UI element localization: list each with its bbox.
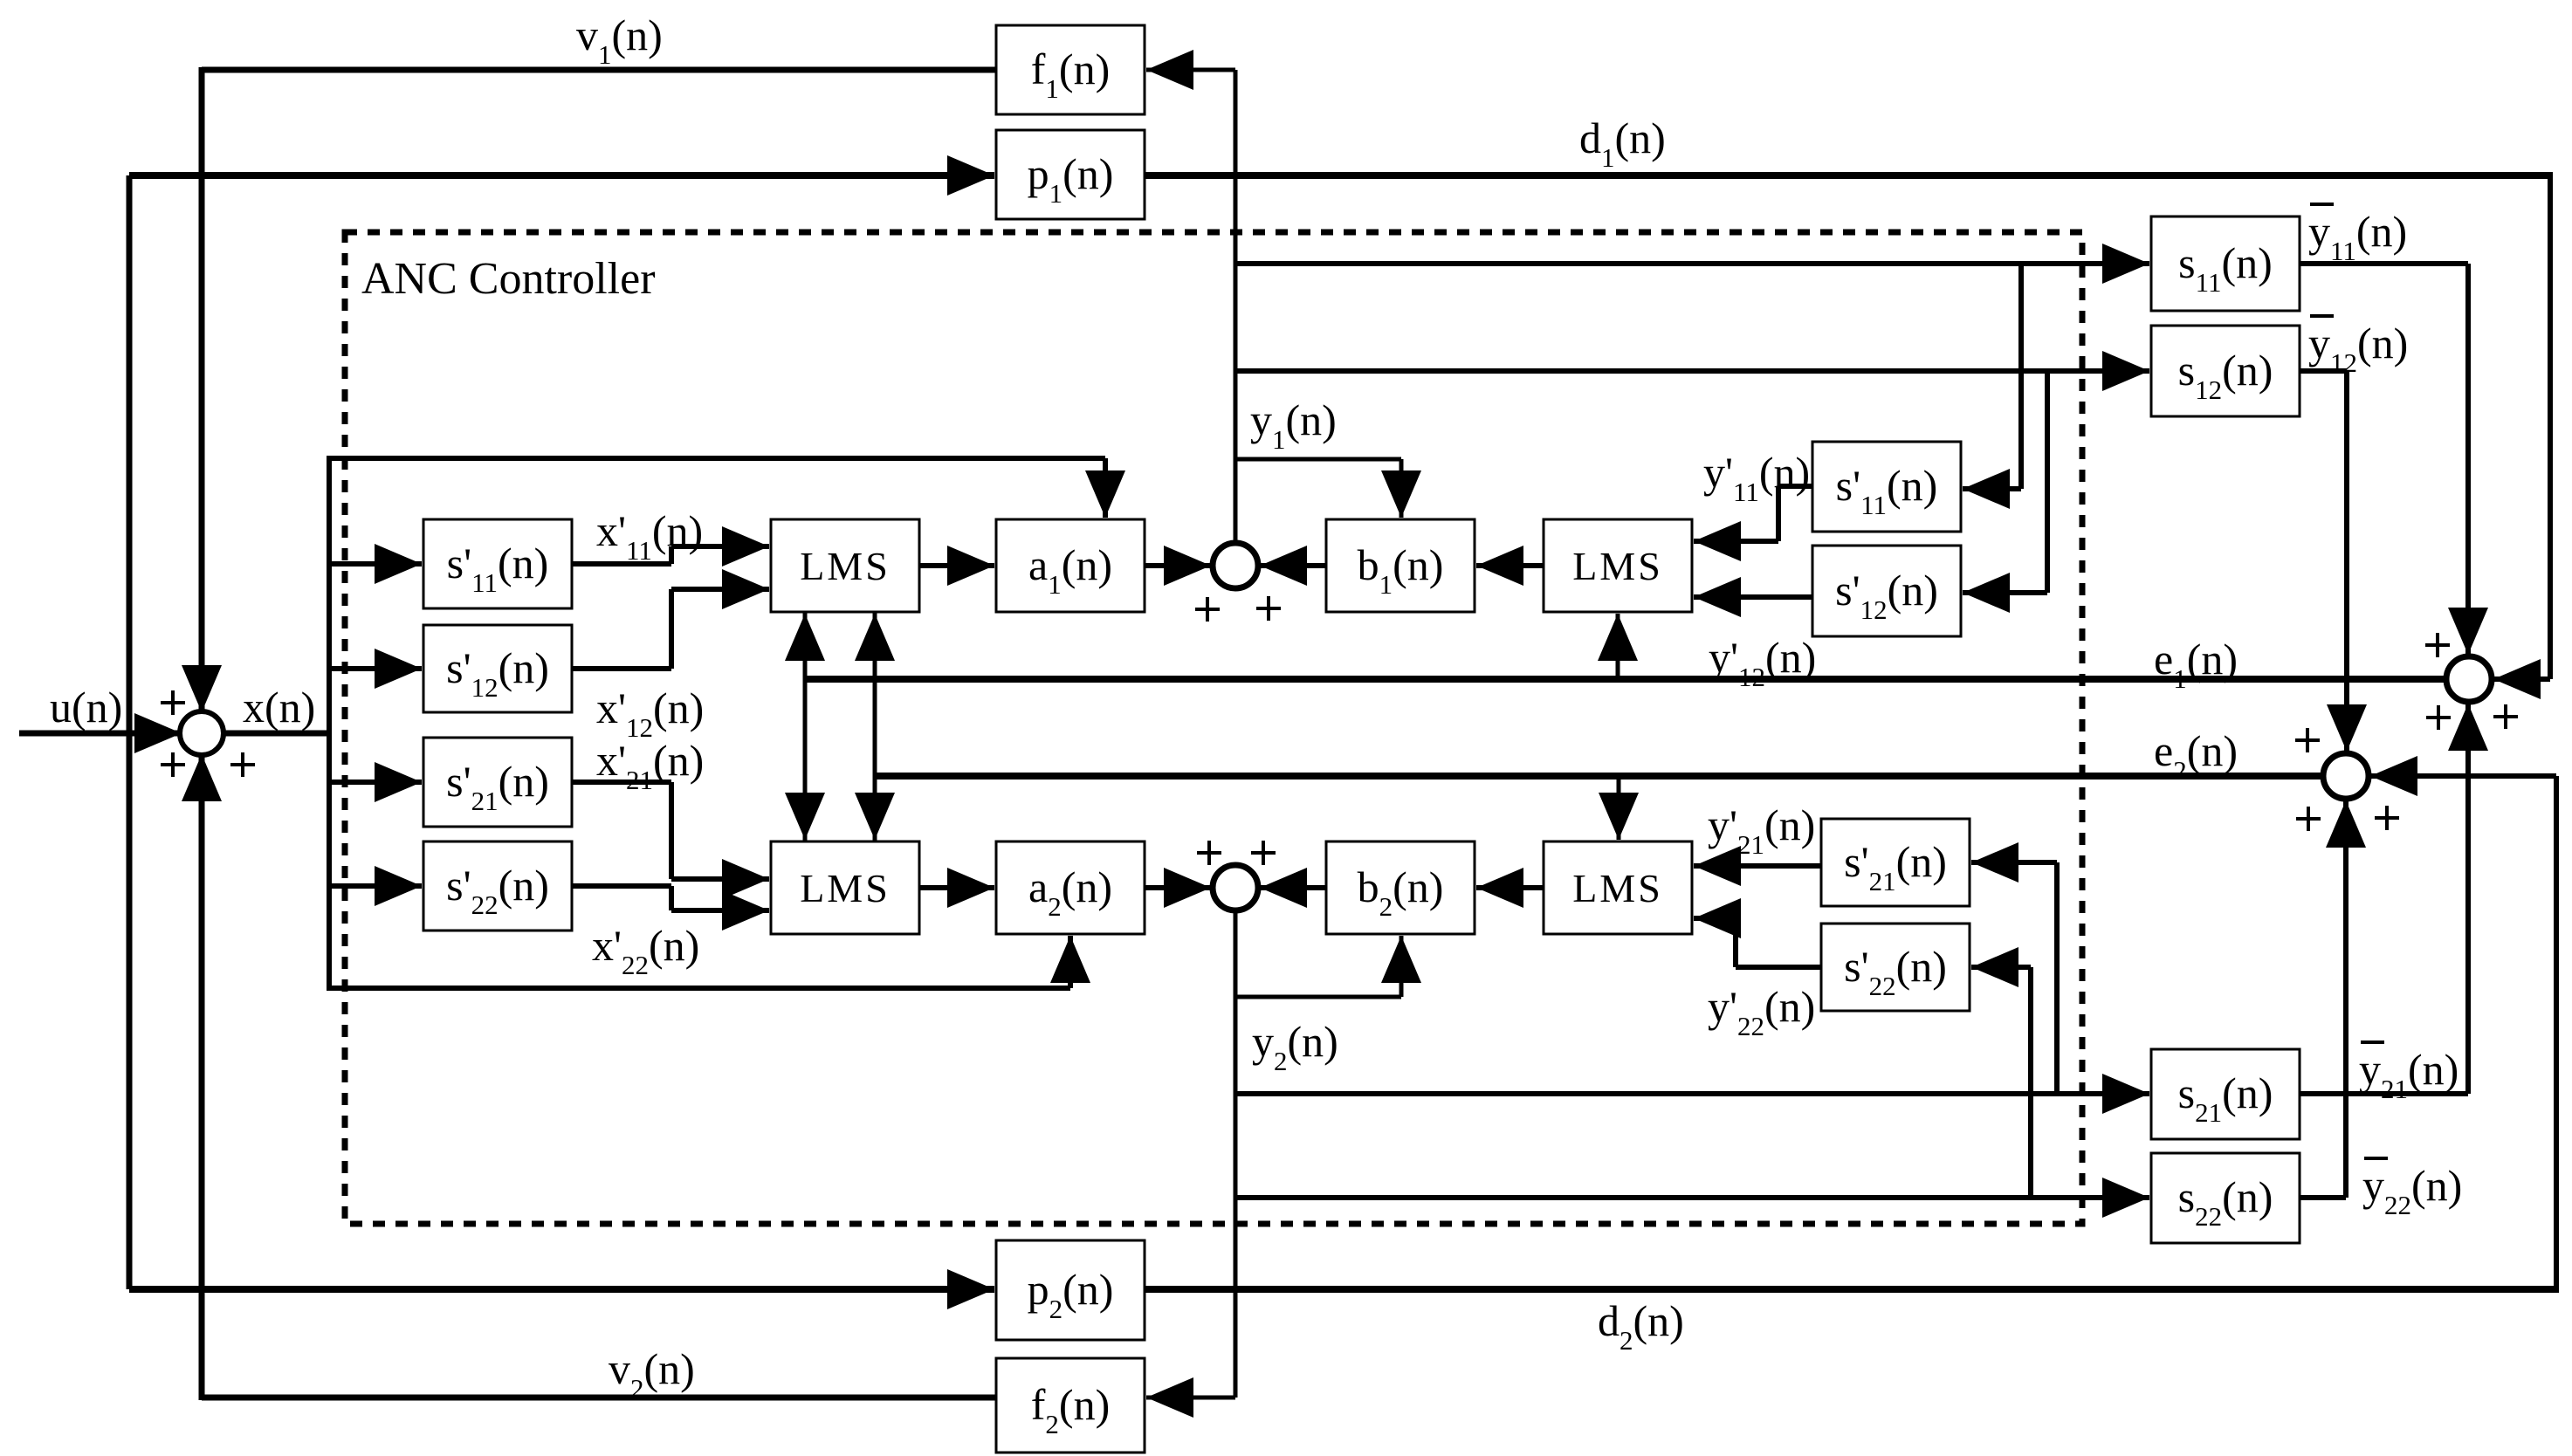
wire b2 to summing junction y2 xyxy=(1260,868,1326,908)
block s'12 model (right) xyxy=(1812,546,1961,636)
block b1(n) xyxy=(1326,519,1475,612)
wire b1 to summing junction y1 xyxy=(1260,546,1326,586)
svg-text:ANC Controller: ANC Controller xyxy=(361,254,656,304)
wire LMS(b2) to b2 xyxy=(1476,868,1544,908)
svg-text:LMS: LMS xyxy=(1572,544,1663,588)
label e2(n) xyxy=(2154,726,2238,786)
label d1(n) xyxy=(1579,113,1666,173)
block f2(n) xyxy=(996,1358,1145,1453)
label x(n) xyxy=(243,683,315,731)
label e1(n) xyxy=(2154,635,2238,694)
wire s11 tap to s'11 model input xyxy=(1963,264,2021,509)
block s22(n) xyxy=(2151,1153,2300,1243)
block s'11 model (right) xyxy=(1812,442,1961,532)
plus sign at y1 bottom-left xyxy=(1195,597,1220,622)
wire s21 tap to s'21 model input xyxy=(1971,842,2057,1094)
svg-text:u(n): u(n) xyxy=(50,683,122,731)
wire d2: p2 to e2 junction xyxy=(1145,756,2556,1293)
block s21(n) xyxy=(2151,1049,2300,1139)
wire ybar11: s11 to e1 junction xyxy=(2300,264,2488,655)
wire y1 branch to s11 xyxy=(1235,244,2149,284)
block s12(n) xyxy=(2151,326,2300,416)
wire y'21: s'21 model to LMS(b2) xyxy=(1694,846,1821,886)
block s'21 filter (left) xyxy=(423,738,572,827)
wire y'11: s'11 model to LMS(b1) xyxy=(1694,486,1812,561)
label y2(n) xyxy=(1252,1017,1338,1076)
plus sign at y1 bottom-right xyxy=(1256,596,1281,621)
summing junction y2 xyxy=(1213,865,1258,910)
wire x bus to s'12 filter xyxy=(329,649,422,689)
block LMS2 (a-path) xyxy=(771,841,919,934)
wire y1 branch to s12 xyxy=(1235,351,2149,391)
svg-text:x(n): x(n) xyxy=(243,683,315,731)
wire y'22: s'22 model to LMS(b2) xyxy=(1694,898,1821,967)
block a2(n) xyxy=(996,841,1145,934)
block s'11 filter (left) xyxy=(423,519,572,608)
plus sign at e2 bottom-left xyxy=(2296,807,2321,831)
plus sign at e2 bottom-right xyxy=(2375,806,2399,830)
wire y'12: s'12 model to LMS(b1) xyxy=(1694,577,1812,617)
plus sign at x(n) top-left xyxy=(161,690,185,715)
block s11(n) xyxy=(2151,216,2300,311)
wire LMS2 to a2 xyxy=(919,868,994,908)
wire e1 error line xyxy=(805,614,2446,679)
wire d-bus vertical (left) xyxy=(127,175,133,1289)
summing junction e2 xyxy=(2323,753,2369,799)
label y'22(n) xyxy=(1708,982,1815,1041)
block f1(n) xyxy=(996,25,1145,114)
wire x bus to s'11 filter xyxy=(329,544,422,584)
summing junction e1 xyxy=(2446,656,2492,702)
label ybar12(n) xyxy=(2308,316,2408,378)
plus sign at e1 bottom-left xyxy=(2426,705,2451,730)
wire x'12: s'12 to LMS1 xyxy=(572,569,769,669)
plus sign at x(n) bottom-right xyxy=(230,752,255,777)
wire LMS1 to a1 xyxy=(919,546,994,586)
wire x'11: s'11 to LMS1 xyxy=(572,526,769,567)
label x'11(n) xyxy=(596,506,703,566)
summing junction x(n) xyxy=(180,711,224,755)
label y1(n) xyxy=(1250,395,1337,455)
label x'12(n) xyxy=(596,683,704,743)
block s'12 filter (left) xyxy=(423,625,572,712)
svg-text:LMS: LMS xyxy=(800,866,891,910)
wire LMS(b1) to b1 xyxy=(1476,546,1544,586)
wire d1: p1 to e1 junction xyxy=(1145,172,2550,699)
wire a1 to summing junction y1 xyxy=(1145,546,1211,586)
wire x bus to s'22 filter xyxy=(329,866,422,906)
plus sign at e2 top-left xyxy=(2295,728,2320,752)
wire s12 tap to s'12 model input xyxy=(1963,371,2047,613)
plus sign at e1 bottom-right xyxy=(2493,704,2518,729)
wire d2: u tap to p2 xyxy=(129,1269,994,1309)
ANC Controller dashed boundary xyxy=(345,232,2082,1224)
svg-text:LMS: LMS xyxy=(800,544,891,588)
label x'21(n) xyxy=(596,736,704,795)
block s'22 model (right) xyxy=(1821,924,1970,1011)
wire d1: u tap to p1 xyxy=(129,155,994,196)
plus sign at y2 top-left xyxy=(1197,841,1221,865)
svg-text:LMS: LMS xyxy=(1572,866,1663,910)
wire x bus bottom branch to a2 input xyxy=(327,936,1090,988)
wire ybar22: s22 to e2 junction xyxy=(2300,800,2366,1198)
block LMS1 (a-path) xyxy=(771,519,919,612)
wire y2 bus vertical with f2 feed xyxy=(1146,910,1235,1418)
block LMS (b1-path) xyxy=(1544,519,1692,612)
wire e2 error line xyxy=(875,776,2323,840)
label u(n) xyxy=(50,683,122,731)
wire e2/e-cross link between LMS1 and LMS2 (right) xyxy=(855,610,895,843)
block s'21 model (right) xyxy=(1821,819,1970,906)
plus sign at e1 top-left xyxy=(2425,633,2450,657)
block p1(n) xyxy=(996,130,1145,219)
label d2(n) xyxy=(1598,1296,1684,1356)
wire x(n) output to reference bus xyxy=(224,458,329,988)
wire y1 branch to b1 input xyxy=(1235,459,1421,518)
label ybar11(n) xyxy=(2308,204,2407,266)
wire ybar12: s12 to e2 junction xyxy=(2300,371,2367,752)
wire y2 branch to b2 input xyxy=(1235,936,1421,997)
wire y1 bus vertical with f1 feed xyxy=(1146,50,1235,543)
wire u(n) input xyxy=(19,713,182,753)
plus sign at y2 top-right xyxy=(1251,841,1276,865)
block LMS (b2-path) xyxy=(1544,841,1692,934)
block s'22 filter (left) xyxy=(423,841,572,931)
label ybar22(n) xyxy=(2362,1158,2462,1220)
block b2(n) xyxy=(1326,841,1475,934)
block a1(n) xyxy=(996,519,1145,612)
label ANC Controller xyxy=(361,254,656,304)
block p2(n) xyxy=(996,1240,1145,1340)
plus sign at x(n) bottom-left xyxy=(161,752,185,777)
wire v2 feedback: f2 output to x(n) junction xyxy=(182,754,996,1400)
label y'21(n) xyxy=(1708,800,1815,860)
wire e1/e-cross link between LMS1 and LMS2 (left) xyxy=(785,610,825,843)
wire s22 tap to s'22 model input xyxy=(1971,947,2031,1198)
wire x'22: s'22 to LMS2 xyxy=(572,886,769,931)
label y'12(n) xyxy=(1709,633,1816,692)
wire y2 branch to s21 xyxy=(1235,1074,2149,1114)
wire v1 feedback: f1 output to x(n) junction xyxy=(182,67,996,712)
wire ybar21: s21 to e1 junction xyxy=(2300,704,2488,1094)
summing junction y1 xyxy=(1213,543,1258,588)
wire x bus to s'21 filter xyxy=(329,762,422,802)
label x'22(n) xyxy=(592,921,699,980)
wire x bus top branch to a1 input xyxy=(327,458,1125,518)
label v2(n) xyxy=(609,1344,695,1404)
label y'11(n) xyxy=(1703,448,1810,507)
label v1(n) xyxy=(576,10,663,70)
wire y2 branch to s22 xyxy=(1235,1178,2149,1218)
wire x'21: s'21 to LMS2 xyxy=(572,782,769,899)
wire a2 to summing junction y2 xyxy=(1145,868,1211,908)
label ybar21(n) xyxy=(2359,1042,2459,1104)
